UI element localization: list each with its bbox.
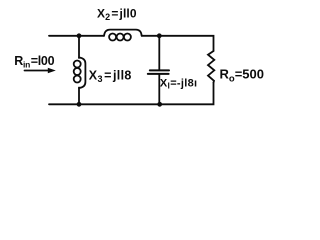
inductor X3 (74, 58, 86, 89)
capacitor X1 bottom lead (158, 75, 160, 105)
wire: top segment from X2 to output corner (142, 36, 214, 51)
svg-text:Xl=-jl8ı: Xl=-jl8ı (160, 77, 198, 90)
capacitor X1 top lead (158, 36, 160, 70)
node dot: X1 / bottom wire junction (157, 102, 162, 107)
inductor X2 (104, 30, 142, 41)
arrow: input Rin direction (25, 70, 50, 72)
resistor Ro zigzag (208, 51, 214, 83)
capacitor X1 plates (148, 70, 169, 74)
wire: X3 bottom lead (78, 88, 80, 105)
wire: right bottom lead (49, 83, 214, 105)
svg-text:Ro=500: Ro=500 (220, 67, 265, 85)
wire: X3 top lead (78, 36, 80, 58)
node dot: X1 / top wire junction (157, 33, 162, 38)
node dot: X3 / top wire junction (77, 33, 82, 38)
arrowhead of Rin arrow (48, 68, 56, 74)
node dot: X3 / bottom wire junction (77, 102, 82, 107)
svg-text:X2 = jll0: X2 = jll0 (97, 7, 137, 23)
svg-text:Rin =l00: Rin =l00 (14, 54, 54, 69)
svg-text:X3 = jll8: X3 = jll8 (89, 68, 132, 84)
wire: top input lead (49, 35, 104, 37)
